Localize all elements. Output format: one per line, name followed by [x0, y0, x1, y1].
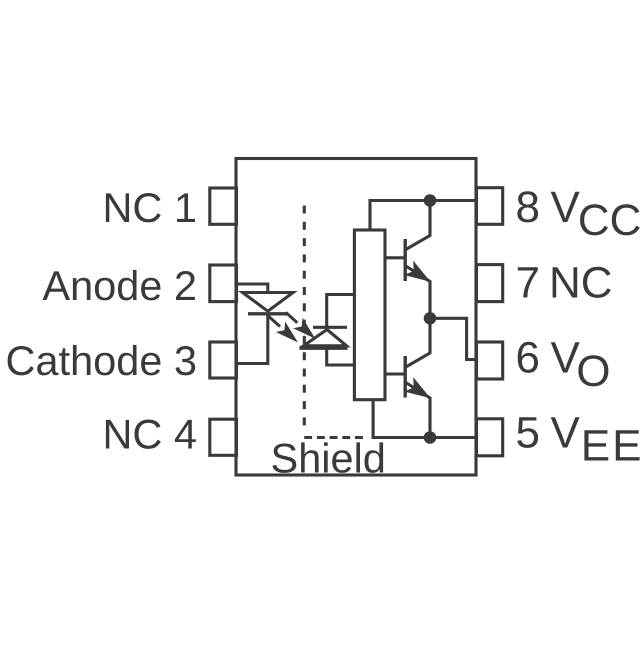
- label NC 4: [106, 420, 196, 449]
- transistor Q1 base bar: [404, 239, 407, 281]
- pin 4 pad: [210, 419, 237, 455]
- photodiode lower stub: [327, 348, 355, 365]
- pin 6 pad: [477, 342, 503, 379]
- wire base Q1: [384, 256, 405, 259]
- wire anode from pin 2: [235, 284, 268, 294]
- pin 5 pad: [477, 419, 503, 456]
- Vcc rail wire: [370, 201, 477, 232]
- shield dashed line: [303, 206, 306, 434]
- wire output to pin 6: [430, 318, 477, 359]
- amplifier block: [354, 230, 385, 400]
- Q2 emitter: [406, 383, 430, 438]
- wire cathode to pin 3: [235, 314, 268, 364]
- photodiode upper stub: [327, 295, 355, 328]
- pin 8 pad: [477, 188, 503, 225]
- wire base Q2: [384, 372, 405, 375]
- LED D1 triangle: [243, 293, 293, 312]
- node dot emitter Q1 / collector Q2: [424, 312, 437, 325]
- light arrow 2 shaft: [286, 312, 298, 322]
- pin 3 pad: [210, 342, 237, 378]
- label pin 6 Vo: [518, 342, 609, 387]
- node dot Vcc: [424, 194, 437, 207]
- light arrow 1 shaft: [269, 316, 281, 326]
- light arrow 1: [276, 322, 298, 343]
- label Cathode 3: [8, 345, 196, 376]
- Q2 collector: [406, 318, 430, 367]
- label NC 1: [106, 193, 195, 222]
- label Shield: [272, 442, 383, 473]
- pin 7 pad: [477, 265, 503, 302]
- label Anode 2: [43, 270, 195, 301]
- pin 2 pad: [210, 265, 237, 302]
- Q1 collector: [406, 201, 430, 250]
- Q1 emitter: [406, 266, 430, 318]
- pin 1 pad: [210, 188, 237, 224]
- Q1 emitter arrowhead: [404, 261, 431, 282]
- Q2 emitter arrowhead: [404, 377, 431, 398]
- light arrow 2: [293, 318, 315, 339]
- Vee rail wire: [373, 399, 477, 438]
- photodiode anode bar: [300, 347, 348, 350]
- photodiode cathode bar: [313, 326, 347, 329]
- shield dashed horizontal: [304, 436, 363, 439]
- label pin 7 NC: [518, 267, 611, 298]
- transistor Q2 base bar: [404, 356, 407, 398]
- node dot Vee: [424, 431, 437, 444]
- photodiode D2 triangle: [304, 330, 347, 346]
- label pin 8 Vcc: [517, 191, 639, 235]
- IC body outline: [236, 159, 476, 476]
- label pin 5 Vee: [517, 417, 639, 460]
- LED D1 cathode bar: [248, 312, 288, 315]
